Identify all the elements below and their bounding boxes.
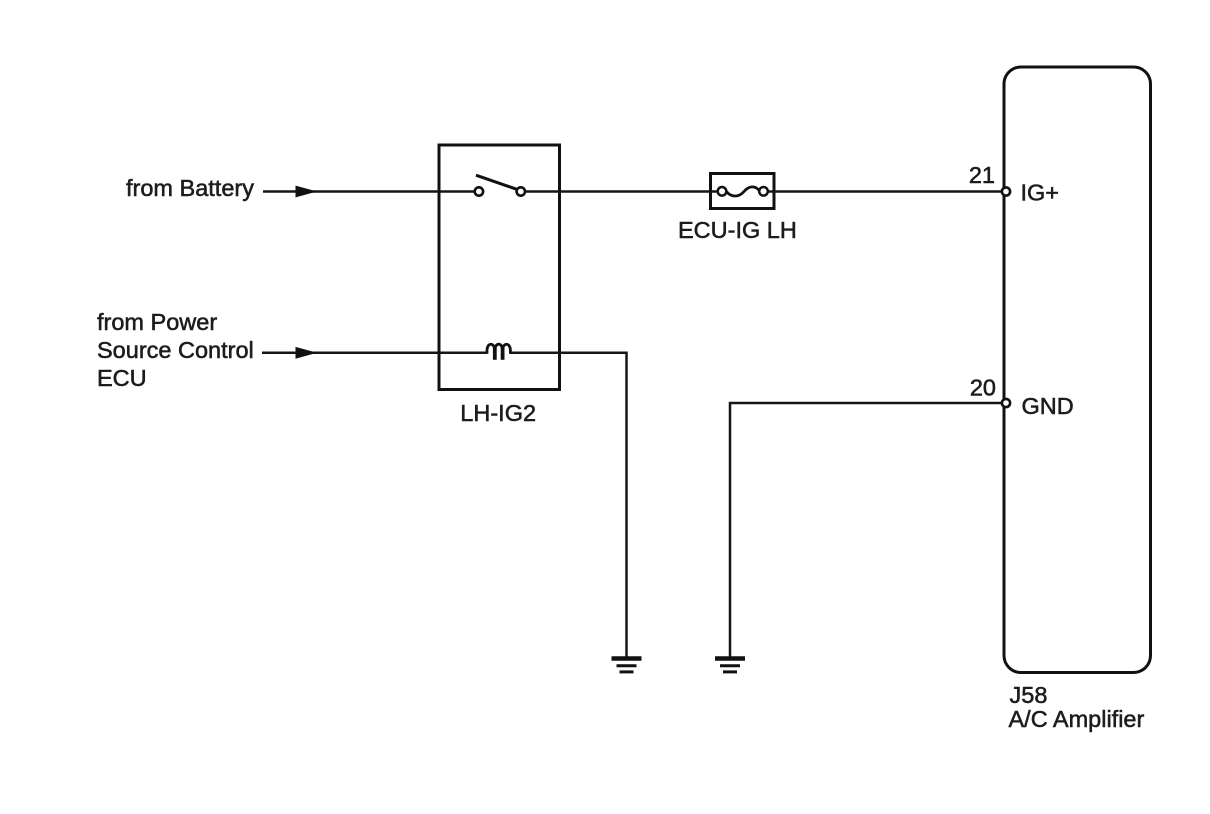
svg-text:LH-IG2: LH-IG2	[460, 400, 536, 426]
svg-text:ECU-IG LH: ECU-IG LH	[678, 217, 797, 243]
svg-text:Source Control: Source Control	[97, 337, 254, 363]
svg-text:J58: J58	[1010, 682, 1048, 708]
svg-text:20: 20	[970, 374, 996, 400]
svg-text:from Battery: from Battery	[126, 175, 254, 201]
svg-text:A/C Amplifier: A/C Amplifier	[1009, 706, 1145, 732]
svg-text:IG+: IG+	[1021, 180, 1060, 206]
svg-text:from Power: from Power	[97, 309, 217, 335]
svg-text:GND: GND	[1022, 393, 1074, 419]
svg-text:ECU: ECU	[97, 365, 147, 391]
svg-text:21: 21	[969, 162, 995, 188]
